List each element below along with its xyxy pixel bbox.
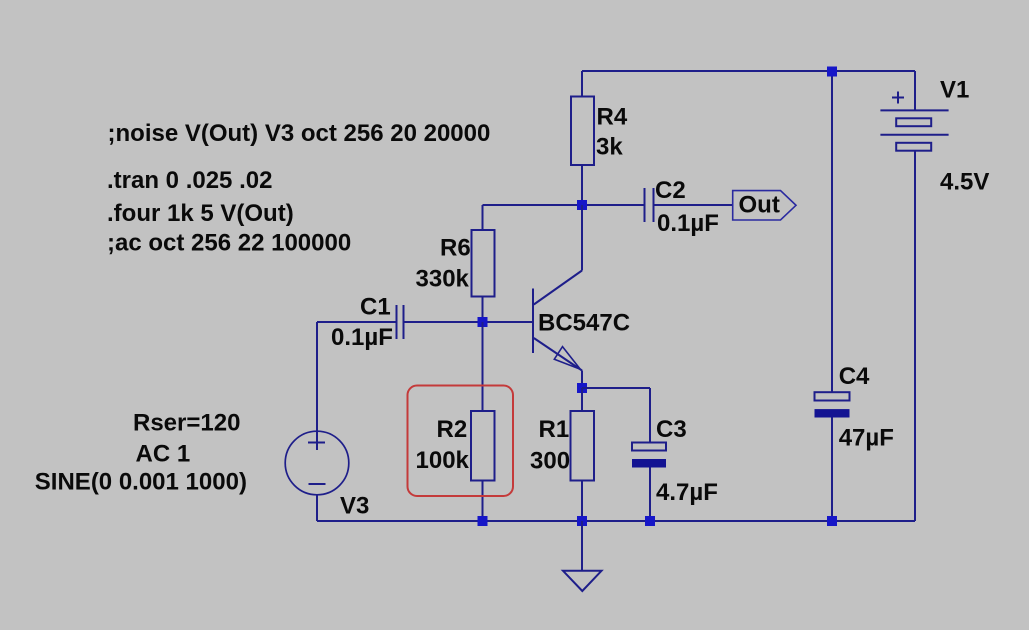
capacitor C4 <box>815 392 850 417</box>
svg-text:R4: R4 <box>597 103 628 130</box>
svg-text:Rser=120: Rser=120 <box>133 409 240 436</box>
junction C4 bottom / rail <box>827 516 837 526</box>
junction collector node <box>577 200 587 210</box>
svg-text:V3: V3 <box>340 493 369 520</box>
wire top rail <box>582 70 915 72</box>
svg-text:0.1µF: 0.1µF <box>657 210 719 237</box>
voltage source V3 <box>285 322 349 521</box>
svg-text:4.7µF: 4.7µF <box>656 479 718 506</box>
svg-text:R6: R6 <box>440 234 471 261</box>
resistor R4 <box>571 71 594 205</box>
svg-text:AC 1: AC 1 <box>136 440 191 467</box>
svg-text:47µF: 47µF <box>839 425 894 452</box>
svg-text:SINE(0 0.001 1000): SINE(0 0.001 1000) <box>35 468 247 495</box>
svg-text:BC547C: BC547C <box>538 310 630 337</box>
battery V1 <box>880 92 948 151</box>
svg-text:100k: 100k <box>416 447 470 474</box>
wire C4 branch upper <box>831 71 833 392</box>
junction R2 / rail <box>478 516 488 526</box>
svg-text:;ac oct 256 22 100000: ;ac oct 256 22 100000 <box>107 230 351 257</box>
capacitor C3 <box>632 443 666 468</box>
junction C3 / rail <box>645 516 655 526</box>
ground symbol <box>563 521 602 591</box>
svg-text:0.1µF: 0.1µF <box>331 324 393 351</box>
svg-text:.four 1k 5 V(Out): .four 1k 5 V(Out) <box>107 200 294 227</box>
resistor R2 <box>471 322 495 521</box>
resistor R1 <box>571 388 595 521</box>
wire bottom ground rail <box>317 520 915 522</box>
wire C2 to Out port <box>654 204 733 206</box>
svg-text:300: 300 <box>530 448 570 475</box>
wire battery V1 top lead <box>914 71 916 110</box>
transistor Q1 BC547C <box>533 205 582 388</box>
svg-text:330k: 330k <box>416 266 470 293</box>
wire C1 to base node <box>404 321 534 323</box>
wire input to C1 <box>317 321 397 323</box>
svg-text:Out: Out <box>739 192 780 219</box>
svg-text:R2: R2 <box>437 416 468 443</box>
svg-text:C4: C4 <box>839 363 870 390</box>
wire C3 lower <box>649 468 651 522</box>
junction R1 / rail <box>577 516 587 526</box>
wire battery V1 bottom lead to ground rail <box>914 151 916 521</box>
wire C4 branch lower <box>831 418 833 522</box>
junction top rail / C4 <box>827 67 837 77</box>
svg-text:C3: C3 <box>656 416 687 443</box>
svg-text:V1: V1 <box>940 77 969 104</box>
capacitor C1 <box>397 305 404 339</box>
wire C3 upper <box>649 388 651 443</box>
junction base node <box>478 317 488 327</box>
svg-text:;noise V(Out) V3 oct 256 20 20: ;noise V(Out) V3 oct 256 20 20000 <box>108 120 491 147</box>
junction emitter node <box>577 383 587 393</box>
wire emitter to C3 <box>582 387 650 389</box>
highlight rectangle around R2 <box>408 386 514 497</box>
svg-text:.tran 0 .025 .02: .tran 0 .025 .02 <box>107 167 272 194</box>
wire collector node horizontal <box>483 204 645 206</box>
resistor R6 <box>472 205 495 322</box>
svg-text:4.5V: 4.5V <box>940 169 989 196</box>
svg-text:C1: C1 <box>360 294 391 321</box>
svg-text:R1: R1 <box>539 416 570 443</box>
svg-text:3k: 3k <box>596 133 623 160</box>
capacitor C2 <box>645 188 654 222</box>
svg-text:C2: C2 <box>655 177 686 204</box>
port Out flag <box>733 191 796 220</box>
